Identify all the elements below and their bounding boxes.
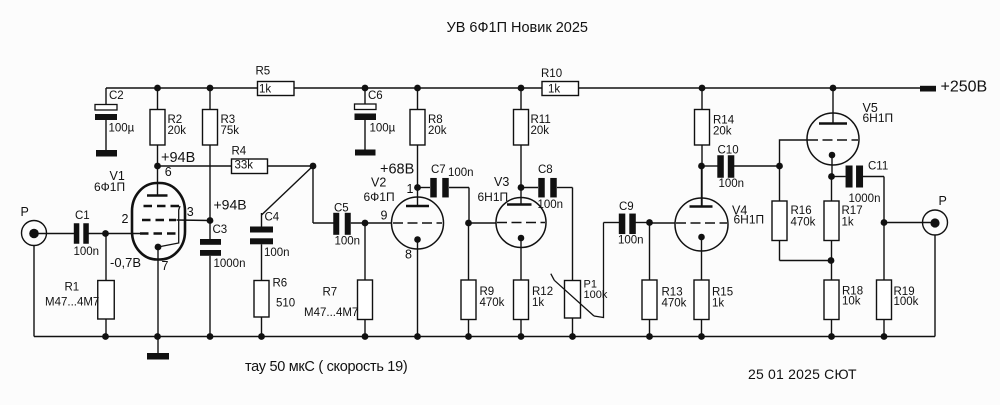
resistor R9 (461, 223, 505, 337)
svg-text:R9: R9 (480, 286, 495, 298)
svg-text:-0,7В: -0,7В (110, 255, 141, 270)
svg-text:1k: 1k (259, 84, 271, 96)
node R4 / C4 / C5 (310, 163, 317, 170)
svg-text:2: 2 (122, 212, 129, 226)
wire node to output jack (884, 222, 931, 224)
ground under C2 (96, 150, 117, 157)
svg-text:V2: V2 (371, 176, 386, 190)
svg-text:100µ: 100µ (109, 122, 135, 134)
svg-text:7: 7 (162, 259, 169, 273)
svg-text:100n: 100n (538, 199, 564, 211)
svg-text:C3: C3 (213, 224, 228, 236)
svg-text:C7: C7 (431, 164, 446, 176)
svg-text:R11: R11 (531, 114, 551, 126)
svg-text:R3: R3 (221, 114, 236, 126)
wire output jack ground leg (934, 235, 936, 337)
wire C7 to V3 grid node (468, 188, 470, 224)
wire V1 anode to R4 (158, 165, 232, 167)
svg-text:470k: 470k (480, 297, 505, 309)
capacitor C1 (74, 210, 100, 258)
svg-text:C11: C11 (868, 160, 888, 172)
resistor R14 (695, 88, 735, 207)
svg-text:9: 9 (381, 209, 388, 223)
svg-text:6Ф1П: 6Ф1П (94, 180, 125, 194)
svg-text:R2: R2 (168, 114, 183, 126)
svg-text:+68В: +68В (380, 161, 414, 177)
svg-text:20k: 20k (531, 125, 550, 137)
capacitor C3 (200, 221, 245, 337)
svg-text:C8: C8 (538, 164, 553, 176)
resistor R2 (150, 88, 186, 166)
svg-text:тау 50 мкС ( скорость 19): тау 50 мкС ( скорость 19) (245, 359, 407, 375)
resistor R18 (824, 280, 863, 337)
resistor R15 (694, 280, 733, 337)
resistor R7 (304, 223, 373, 337)
resistor R13 (642, 223, 687, 337)
svg-text:20k: 20k (168, 125, 187, 137)
svg-text:10k: 10k (842, 296, 861, 308)
capacitor C5 (313, 203, 392, 248)
node V3 anode / R11 / C8 (518, 184, 525, 191)
resistor R10 (in rail) (541, 68, 579, 96)
svg-text:М47...4М7: М47...4М7 (45, 297, 99, 309)
svg-text:1k: 1k (548, 84, 560, 96)
node V3 grid / R9 (465, 220, 472, 227)
svg-text:УВ 6Ф1П Новик 2025: УВ 6Ф1П Новик 2025 (447, 20, 588, 36)
capacitor C8 (521, 164, 573, 211)
resistor R17 (824, 177, 863, 281)
capacitor C7 (418, 164, 474, 198)
svg-text:+94В: +94В (161, 150, 195, 166)
resistor R11 (514, 88, 551, 205)
input jack P (left) (21, 205, 47, 246)
svg-text:R7: R7 (323, 286, 338, 298)
wire C8 down to P1 (572, 188, 574, 281)
svg-text:V3: V3 (494, 175, 509, 189)
svg-text:100n: 100n (74, 246, 100, 258)
svg-text:100µ: 100µ (370, 123, 396, 135)
junction rail R8 (414, 85, 421, 92)
ground under C6 (355, 150, 376, 156)
svg-text:R8: R8 (428, 114, 443, 126)
svg-text:C5: C5 (334, 203, 349, 215)
svg-text:C9: C9 (619, 201, 634, 213)
node V4 anode / R14 / C10 (698, 163, 705, 170)
svg-text:Р: Р (939, 194, 947, 208)
capacitor C4 (250, 211, 290, 280)
output jack P (right) (923, 194, 948, 235)
resistor R16 (772, 166, 831, 261)
wire grid riser to V5 (780, 140, 809, 166)
svg-text:1k: 1k (532, 297, 544, 309)
svg-text:+250В: +250В (941, 79, 988, 96)
svg-text:33k: 33k (235, 160, 254, 172)
svg-text:100k: 100k (894, 296, 919, 308)
V1 screen grid (dashed) (142, 219, 176, 221)
svg-text:100k: 100k (584, 289, 608, 301)
svg-text:C1: C1 (75, 210, 90, 222)
svg-text:R14: R14 (713, 114, 735, 126)
node V4 grid / R13 (646, 219, 653, 226)
wire top supply rail +250V (106, 87, 920, 89)
capacitor C2 (electrolytic to ground) (95, 88, 135, 150)
svg-text:C2: C2 (109, 90, 124, 102)
svg-text:6Н1П: 6Н1П (734, 212, 765, 226)
node V1 anode (154, 163, 161, 170)
resistor R6 (254, 277, 295, 336)
svg-text:1k: 1k (842, 216, 854, 228)
svg-text:R17: R17 (842, 205, 863, 217)
tube V2 triode 6F1P (392, 188, 444, 337)
svg-text:1: 1 (407, 182, 414, 196)
junction rail C6 (362, 85, 369, 92)
wire bottom ground rail (34, 336, 935, 338)
svg-text:R13: R13 (662, 286, 683, 298)
svg-text:R4: R4 (232, 145, 247, 157)
tube V3 triode 6N1P (496, 198, 546, 281)
svg-text:100n: 100n (335, 235, 361, 247)
svg-text:100n: 100n (618, 235, 644, 247)
V1 screen lead pin 3 (177, 219, 211, 222)
resistor R1 (45, 234, 114, 337)
svg-text:1000n: 1000n (214, 258, 246, 270)
svg-text:100n: 100n (264, 247, 290, 259)
wire C11 down to output node (883, 177, 885, 223)
svg-text:510: 510 (276, 297, 295, 309)
wire C1 to V1 grid (89, 233, 141, 235)
V1 anode (147, 194, 168, 197)
svg-text:6Н1П: 6Н1П (478, 190, 509, 204)
svg-text:470k: 470k (662, 298, 687, 310)
node C5 / R7 / V2 grid (362, 220, 369, 227)
svg-text:1000n: 1000n (849, 193, 881, 205)
svg-text:6: 6 (165, 165, 172, 179)
capacitor C10 (702, 144, 780, 190)
capacitor C11 (832, 160, 889, 205)
svg-text:20k: 20k (428, 125, 447, 137)
node output / R19 (881, 219, 888, 226)
svg-text:R1: R1 (65, 281, 80, 293)
V1 cathode dot (155, 244, 162, 251)
potentiometer P1 (551, 223, 608, 337)
junction rail R2 (154, 85, 161, 92)
resistor R8 (410, 88, 447, 188)
svg-text:6Ф1П: 6Ф1П (364, 190, 395, 204)
tube V1 pentode 6F1P envelope (132, 183, 185, 260)
junction rail R11 (518, 85, 525, 92)
V1 anode lead pin 6 (157, 166, 159, 196)
node V5 cathode / C11 / R17 (828, 173, 835, 180)
svg-text:100n: 100n (448, 167, 474, 179)
capacitor C9 (604, 201, 650, 247)
resistor R4 (232, 145, 268, 173)
node screen +94V (207, 217, 214, 224)
ground under V1 cathode (147, 337, 169, 360)
svg-text:R5: R5 (256, 65, 271, 77)
svg-text:20k: 20k (713, 126, 732, 138)
terminal +250V (920, 86, 936, 92)
svg-text:8: 8 (405, 248, 412, 262)
wire V5 anode to rail (832, 88, 834, 124)
svg-text:6Н1П: 6Н1П (863, 111, 894, 125)
svg-text:Р: Р (21, 205, 29, 219)
svg-text:C6: C6 (368, 90, 383, 102)
svg-text:R16: R16 (791, 205, 812, 217)
svg-text:470k: 470k (791, 216, 816, 228)
svg-text:25 01 2025 СЮТ: 25 01 2025 СЮТ (748, 366, 857, 382)
resistor R5 (in rail) (256, 65, 295, 95)
resistor R3 (203, 88, 240, 221)
wire input jack ground leg (33, 246, 35, 337)
svg-text:C4: C4 (265, 211, 280, 223)
svg-text:R6: R6 (273, 277, 288, 289)
node V2 anode / R8 / C7 (414, 184, 421, 191)
svg-text:+94В: +94В (214, 197, 247, 213)
resistor R12 (514, 280, 554, 337)
junction rail R3 (207, 85, 214, 92)
svg-text:3: 3 (187, 205, 194, 219)
rail junctions (102, 333, 887, 340)
node R16 / R17 / R18 (828, 257, 835, 264)
tube V4 triode 6N1P (675, 166, 728, 280)
wire node down to C5 level (312, 166, 314, 223)
wire R4 to node (268, 165, 314, 167)
V1 suppressor grid (dashed) (144, 205, 181, 207)
tube V5 triode 6N1P (807, 113, 859, 177)
svg-text:R10: R10 (541, 68, 562, 80)
svg-text:1k: 1k (712, 298, 724, 310)
node V5 grid / R16 / C10 (776, 163, 783, 170)
wire diagonal node to C4 (262, 166, 314, 215)
resistor R19 (877, 223, 919, 337)
svg-text:100n: 100n (719, 178, 745, 190)
svg-text:C10: C10 (718, 144, 739, 156)
node V1 grid / R1 (102, 230, 109, 237)
V1 suppressor to cathode link (158, 206, 180, 247)
V1 control grid (dashed) (140, 232, 177, 234)
wire node to V3 grid (469, 222, 497, 224)
wire input jack to C1 (38, 233, 74, 235)
svg-text:75k: 75k (221, 125, 240, 137)
junction rail R14 (699, 85, 706, 92)
svg-text:М47...4М7: М47...4М7 (304, 307, 358, 319)
V1 cathode lead pin 7 (157, 247, 159, 337)
svg-text:R12: R12 (532, 286, 553, 298)
wire node to V4 grid (650, 222, 676, 224)
junction rail V5 (830, 85, 837, 92)
svg-text:R15: R15 (712, 286, 733, 298)
capacitor C6 (electrolytic to ground) (355, 88, 396, 150)
